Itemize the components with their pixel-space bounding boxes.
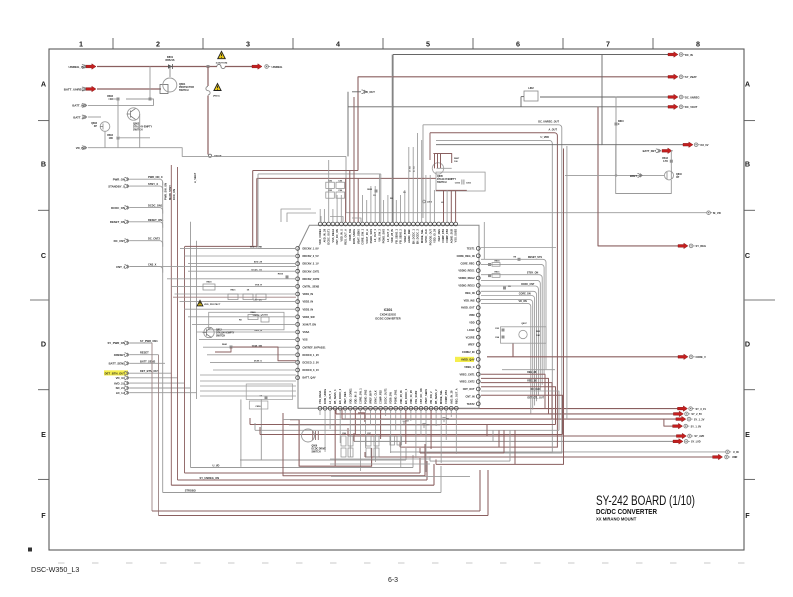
svg-text:PGOOD_OUT: PGOOD_OUT [428, 229, 432, 246]
svg-text:DCDCO_1_2V: DCDCO_1_2V [303, 354, 320, 357]
svg-text:SY_VBAT: SY_VBAT [685, 75, 697, 79]
svg-text:VDDIO_REG3: VDDIO_REG3 [458, 285, 475, 288]
svg-text:LOAD: LOAD [467, 329, 474, 332]
svg-text:VDD_IO_28: VDD_IO_28 [409, 390, 413, 404]
svg-text:RESET_SYS: RESET_SYS [528, 256, 542, 259]
svg-text:SY_PWR_ON1: SY_PWR_ON1 [140, 339, 158, 343]
svg-text:DCD_ON: DCD_ON [172, 189, 176, 200]
svg-text:U_IN: U_IN [733, 451, 739, 454]
svg-text:2: 2 [156, 40, 160, 49]
svg-text:COMP_FB1: COMP_FB1 [444, 390, 448, 404]
svg-text:SWITCH: SWITCH [437, 181, 447, 184]
svg-text:VSS_SUB2: VSS_SUB2 [454, 228, 458, 242]
svg-text:U_VD: U_VD [410, 166, 412, 172]
svg-text:R841: R841 [222, 343, 228, 346]
svg-text:M_VD: M_VD [713, 211, 721, 215]
svg-text:FB_SENS_1: FB_SENS_1 [394, 228, 398, 243]
svg-text:VSS_R: VSS_R [255, 285, 263, 287]
svg-text:DC_UNREG: DC_UNREG [685, 95, 700, 99]
svg-text:10K: 10K [109, 137, 114, 140]
svg-text:VDD_INS: VDD_INS [464, 299, 475, 302]
svg-text:SWITCH: SWITCH [133, 129, 143, 132]
svg-text:VSS_SUB2: VSS_SUB2 [414, 390, 418, 404]
svg-text:STBY_ON: STBY_ON [527, 272, 539, 275]
svg-text:TEST2: TEST2 [467, 403, 475, 406]
svg-text:DC_CNT2: DC_CNT2 [148, 237, 161, 241]
svg-text:C811: C811 [466, 183, 472, 185]
svg-text:PWR_ON: PWR_ON [113, 177, 125, 181]
svg-text:CNTRL_SENS: CNTRL_SENS [303, 286, 320, 289]
svg-text:VCORE: VCORE [466, 336, 475, 339]
svg-text:6-3: 6-3 [388, 577, 398, 584]
svg-text:DCDCO_2_5V: DCDCO_2_5V [303, 362, 320, 365]
svg-text:4: 4 [336, 40, 340, 49]
svg-text:ISET_RES: ISET_RES [437, 229, 441, 242]
svg-text:B: B [745, 160, 750, 169]
svg-text:VDD: VDD [469, 322, 474, 325]
svg-text:A_VBAT: A_VBAT [193, 172, 197, 183]
svg-text:VSS_REG1: VSS_REG1 [331, 228, 335, 242]
svg-text:DDCNV_CNT1: DDCNV_CNT1 [303, 270, 320, 273]
svg-text:BATT_QAV: BATT_QAV [303, 377, 316, 380]
svg-text:Q806: Q806 [312, 446, 318, 448]
svg-text:DCDC_CNT: DCDC_CNT [521, 283, 535, 286]
svg-text:DET_CTL_OUT: DET_CTL_OUT [528, 398, 545, 400]
svg-text:CORE_REG: CORE_REG [460, 262, 474, 265]
svg-text:L802: L802 [528, 87, 534, 90]
svg-text:Q807: Q807 [521, 323, 527, 325]
svg-text:DC_IN: DC_IN [685, 53, 693, 57]
svg-text:REG_18: REG_18 [527, 381, 537, 383]
svg-text:A_OUT: A_OUT [549, 128, 558, 131]
svg-text:EN_DCDC_2: EN_DCDC_2 [338, 388, 342, 404]
svg-text:DDCNV_2_5V: DDCNV_2_5V [303, 255, 319, 258]
svg-text:FB_SENS_1: FB_SENS_1 [333, 389, 337, 404]
svg-text:IC801: IC801 [384, 308, 393, 312]
svg-text:IC810: IC810 [262, 315, 269, 317]
svg-text:F: F [41, 511, 46, 520]
svg-text:VDM: VDM [469, 314, 475, 317]
svg-text:XP: XP [94, 125, 98, 128]
svg-text:SWITCH: SWITCH [312, 452, 321, 454]
svg-text:CORE_SW_1: CORE_SW_1 [361, 228, 365, 244]
svg-text:SY_LVD: SY_LVD [691, 441, 701, 444]
svg-text:C810: C810 [455, 183, 461, 185]
svg-text:SY_PWR_ON: SY_PWR_ON [107, 341, 125, 345]
svg-text:VDD_CORE1: VDD_CORE1 [318, 228, 322, 244]
svg-text:F: F [745, 511, 750, 520]
svg-text:(CAUTION): (CAUTION) [216, 62, 228, 65]
svg-text:DDCNV_3_1V: DDCNV_3_1V [303, 263, 319, 266]
svg-text:VBAT_SENS: VBAT_SENS [424, 389, 428, 404]
svg-text:VDDIO_REG1: VDDIO_REG1 [458, 270, 475, 273]
svg-text:A: A [745, 80, 750, 89]
svg-text:R820: R820 [207, 282, 213, 284]
svg-text:PGND_SW2: PGND_SW2 [382, 228, 386, 243]
svg-text:DC_CLK: DC_CLK [531, 389, 541, 391]
svg-text:DCIN_UNRG: DCIN_UNRG [352, 229, 356, 244]
svg-text:DCIN_U: DCIN_U [254, 361, 263, 363]
svg-text:PGND_SW2: PGND_SW2 [363, 389, 367, 404]
svg-text:AGND_REF: AGND_REF [407, 229, 411, 243]
svg-text:MODE_SEL: MODE_SEL [439, 390, 443, 404]
svg-text:Q812: Q812 [216, 330, 222, 332]
svg-text:R831: R831 [495, 272, 501, 274]
svg-text:SY_UNREG_ON: SY_UNREG_ON [200, 476, 220, 480]
svg-text:DC_CNT: DC_CNT [114, 239, 126, 243]
svg-text:PGND_SW1: PGND_SW1 [394, 389, 398, 404]
svg-text:3: 3 [246, 40, 250, 49]
svg-text:DET_BTN_OUT: DET_BTN_OUT [105, 371, 126, 375]
svg-text:BDET: BDET [630, 174, 637, 178]
svg-text:D3_0V: D3_0V [701, 143, 709, 147]
svg-text:SY_2_5V: SY_2_5V [691, 413, 702, 416]
svg-text:VDD_IN_S: VDD_IN_S [353, 391, 357, 404]
svg-text:DCDC DRIVE: DCDC DRIVE [312, 449, 327, 451]
svg-text:4.7K: 4.7K [663, 160, 668, 163]
svg-text:R840: R840 [251, 311, 257, 314]
svg-text:C: C [41, 251, 46, 260]
svg-text:CNT_IN: CNT_IN [465, 396, 474, 399]
svg-text:DCDC_ON: DCDC_ON [111, 206, 125, 210]
svg-text:CNTREF_BYPASS1: CNTREF_BYPASS1 [303, 346, 327, 349]
svg-text:VOUT_18_A: VOUT_18_A [365, 229, 369, 244]
svg-text:E: E [41, 430, 46, 439]
svg-text:R807: R807 [454, 158, 460, 160]
svg-text:SWITCH: SWITCH [216, 336, 225, 338]
svg-text:SYNC_CLK: SYNC_CLK [374, 390, 378, 404]
svg-text:E: E [745, 430, 750, 439]
svg-text:SY_REG: SY_REG [696, 244, 707, 248]
svg-text:AVD_28: AVD_28 [254, 261, 263, 264]
svg-text:DCIN_UNRG: DCIN_UNRG [323, 389, 327, 404]
svg-text:COMP_FB2: COMP_FB2 [379, 390, 383, 404]
svg-text:AGND_SUB: AGND_SUB [449, 229, 453, 243]
svg-text:U_VD: U_VD [213, 463, 220, 467]
svg-text:CORE_REG_IN: CORE_REG_IN [457, 255, 475, 258]
svg-text:UNREG: UNREG [272, 65, 284, 69]
svg-text:VSS: VSS [303, 339, 308, 342]
svg-text:R821: R821 [231, 290, 237, 292]
svg-text:VDD_IN_S: VDD_IN_S [339, 229, 343, 242]
svg-text:LX_OUT_1: LX_OUT_1 [328, 391, 332, 404]
svg-text:VDD_CORE1: VDD_CORE1 [348, 388, 352, 404]
svg-text:VDD_PROTECT: VDD_PROTECT [204, 304, 221, 306]
svg-text:AVDD_OUT: AVDD_OUT [461, 307, 475, 310]
svg-text:RESET_ON1: RESET_ON1 [148, 218, 164, 222]
svg-text:B: B [41, 160, 46, 169]
svg-text:VDD_28_IN: VDD_28_IN [399, 390, 403, 404]
svg-text:D: D [745, 340, 750, 349]
svg-text:BATT_DET: BATT_DET [643, 149, 657, 153]
svg-text:COMP_FB2: COMP_FB2 [445, 228, 449, 242]
svg-text:BATT_SENS: BATT_SENS [140, 359, 155, 363]
svg-text:VDD4_SW: VDD4_SW [303, 316, 316, 319]
svg-text:CORE_V: CORE_V [696, 356, 707, 359]
svg-text:DC/DC CONVERTER: DC/DC CONVERTER [596, 507, 657, 516]
svg-text:R819: R819 [278, 274, 284, 276]
svg-text:VDD1_IN: VDD1_IN [303, 293, 314, 296]
svg-text:CORE2_IN: CORE2_IN [462, 351, 475, 354]
svg-text:XSHUT_DN: XSHUT_DN [303, 324, 317, 327]
svg-text:U_VDD: U_VDD [541, 136, 550, 139]
svg-text:VBAT_SENS: VBAT_SENS [356, 229, 360, 244]
svg-text:AVDD_QAV: AVDD_QAV [461, 359, 475, 362]
svg-text:FB_SENS_2: FB_SENS_2 [434, 389, 438, 404]
svg-text:SY-242 BOARD (1/10): SY-242 BOARD (1/10) [596, 493, 695, 508]
svg-text:VDD_IO_28: VDD_IO_28 [433, 228, 437, 242]
svg-text:EN_DCDC_1: EN_DCDC_1 [404, 388, 408, 404]
svg-text:DET_BTN_OUT: DET_BTN_OUT [140, 369, 159, 373]
svg-text:FB_SENS_2: FB_SENS_2 [399, 228, 403, 243]
svg-text:AVD_2.8: AVD_2.8 [114, 381, 126, 385]
svg-text:DSC-W350_L3: DSC-W350_L3 [31, 565, 79, 574]
svg-text:VDDIO_REG2: VDDIO_REG2 [458, 277, 475, 280]
svg-text:D_OUT: D_OUT [366, 90, 375, 94]
svg-text:SY_1_8V: SY_1_8V [691, 425, 702, 428]
svg-text:6: 6 [516, 40, 520, 49]
svg-text:REG_OUT_A: REG_OUT_A [454, 388, 458, 404]
svg-text:8: 8 [696, 40, 700, 49]
svg-text:VDD_CORE: VDD_CORE [250, 247, 263, 249]
svg-text:DCDC_ON1: DCDC_ON1 [148, 204, 163, 208]
svg-text:10K: 10K [536, 335, 540, 337]
svg-text:REG_28: REG_28 [527, 372, 537, 374]
svg-text:C: C [745, 251, 750, 260]
svg-text:STROBO: STROBO [185, 488, 196, 492]
svg-text:CXD4132GG: CXD4132GG [380, 313, 396, 317]
svg-text:VDD2_IN: VDD2_IN [303, 301, 314, 304]
svg-text:VREF_BYP: VREF_BYP [403, 229, 407, 243]
svg-text:STBY_X: STBY_X [148, 182, 158, 186]
svg-text:CNT_DC: CNT_DC [253, 300, 262, 302]
svg-text:CNT_DC_ON: CNT_DC_ON [335, 229, 339, 245]
svg-text:RB521S: RB521S [165, 59, 174, 62]
svg-text:PGND_SW1: PGND_SW1 [369, 228, 373, 243]
svg-text:STANDBY_X: STANDBY_X [108, 184, 125, 188]
svg-text:SYNC_CLK: SYNC_CLK [424, 229, 428, 243]
svg-text:DTA114Y-EMPTY: DTA114Y-EMPTY [216, 332, 235, 335]
svg-text:D: D [41, 340, 46, 349]
svg-text:COMP_FB1: COMP_FB1 [441, 228, 445, 242]
svg-text:DCDC_O1: DCDC_O1 [252, 269, 263, 271]
svg-text:LD_1.8: LD_1.8 [116, 391, 126, 395]
svg-text:CNT_OUT: CNT_OUT [463, 388, 475, 391]
svg-text:VSSA: VSSA [303, 331, 310, 334]
svg-text:LX_OUT_1: LX_OUT_1 [373, 228, 377, 241]
svg-text:SY_3_1V: SY_3_1V [696, 408, 707, 411]
svg-text:VREG_CNT2: VREG_CNT2 [459, 381, 475, 384]
svg-text:SY_1_2V: SY_1_2V [694, 418, 705, 421]
svg-text:CNT_DC_ON: CNT_DC_ON [419, 388, 423, 404]
svg-text:VDD3_IN: VDD3_IN [303, 308, 314, 311]
svg-text:PWR_SW_ON: PWR_SW_ON [164, 183, 168, 200]
svg-text:R830: R830 [495, 261, 501, 263]
svg-text:VREF_BYP: VREF_BYP [368, 390, 372, 404]
svg-text:DCDCO_3_1V: DCDCO_3_1V [303, 369, 320, 372]
svg-text:VD28_SW: VD28_SW [348, 228, 352, 240]
svg-text:ISET_RES: ISET_RES [343, 391, 347, 404]
svg-text:CNT_3: CNT_3 [116, 265, 125, 269]
svg-text:CORE_SW_1: CORE_SW_1 [358, 388, 362, 404]
svg-text:C850: C850 [255, 406, 261, 408]
svg-text:AVD_IN_28: AVD_IN_28 [322, 228, 326, 242]
svg-text:SD_2.9: SD_2.9 [116, 386, 126, 390]
svg-text:REG_OUT_A: REG_OUT_A [344, 229, 348, 245]
svg-text:5: 5 [426, 40, 430, 49]
svg-text:CN3_X: CN3_X [148, 263, 157, 267]
svg-text:XP: XP [676, 176, 680, 179]
svg-text:XX MIRANO MOUNT: XX MIRANO MOUNT [596, 517, 637, 522]
svg-text:BATT_UNREG: BATT_UNREG [64, 88, 85, 92]
svg-text:REG_IN: REG_IN [465, 292, 475, 295]
svg-text:VREG_CNT1: VREG_CNT1 [459, 373, 475, 376]
svg-text:DC/DC CONVERTER: DC/DC CONVERTER [375, 317, 400, 321]
svg-text:VDD_28_IN: VDD_28_IN [390, 229, 394, 243]
svg-text:AVD_IN_28: AVD_IN_28 [449, 390, 453, 404]
svg-text:TEST1: TEST1 [467, 248, 475, 251]
svg-text:VSS_REG1: VSS_REG1 [318, 390, 322, 404]
svg-text:RESET_ON: RESET_ON [110, 220, 125, 224]
svg-text:SY_AVD: SY_AVD [694, 435, 704, 438]
svg-text:MODE_SEL: MODE_SEL [420, 229, 424, 243]
svg-text:DCDC_OUT1: DCDC_OUT1 [327, 228, 331, 244]
svg-text:DCDC_OUT1: DCDC_OUT1 [384, 388, 388, 404]
svg-text:VREG_C: VREG_C [464, 366, 474, 369]
svg-text:7: 7 [606, 40, 610, 49]
svg-text:BATT_SENS: BATT_SENS [109, 362, 126, 366]
svg-text:UNR: UNR [732, 456, 738, 459]
svg-text:LX_OUT_2: LX_OUT_2 [386, 228, 390, 241]
svg-text:EN_DCDC_1: EN_DCDC_1 [411, 228, 415, 244]
svg-text:VIN_SW_2: VIN_SW_2 [377, 228, 381, 241]
svg-text:CORE_ON: CORE_ON [519, 292, 531, 295]
svg-text:SWITCH: SWITCH [179, 89, 189, 92]
svg-text:A: A [41, 80, 46, 89]
svg-text:DDCNV_1_8V: DDCNV_1_8V [303, 248, 319, 251]
svg-text:VIN_SW_2: VIN_SW_2 [429, 391, 433, 404]
svg-text:VD_ON: VD_ON [519, 300, 528, 303]
svg-text:DC_VOUT: DC_VOUT [685, 105, 698, 109]
svg-text:VREF: VREF [468, 344, 475, 347]
svg-text:1: 1 [79, 40, 83, 49]
svg-text:EN_DCDC_2: EN_DCDC_2 [416, 228, 420, 244]
svg-text:1K: 1K [110, 98, 113, 101]
svg-text:(F801): (F801) [213, 96, 220, 98]
svg-text:VD_3.0: VD_3.0 [116, 376, 126, 380]
svg-text:XRESET: XRESET [114, 353, 125, 357]
svg-text:DC_UNREG_OUT: DC_UNREG_OUT [538, 121, 559, 124]
svg-text:UNREG_IN: UNREG_IN [68, 65, 84, 69]
svg-text:DDCNV_CNT2: DDCNV_CNT2 [303, 278, 320, 281]
svg-text:RESET: RESET [140, 351, 149, 355]
svg-text:PWR_ON_X: PWR_ON_X [148, 175, 163, 179]
svg-text:VD28_SW: VD28_SW [389, 392, 393, 404]
